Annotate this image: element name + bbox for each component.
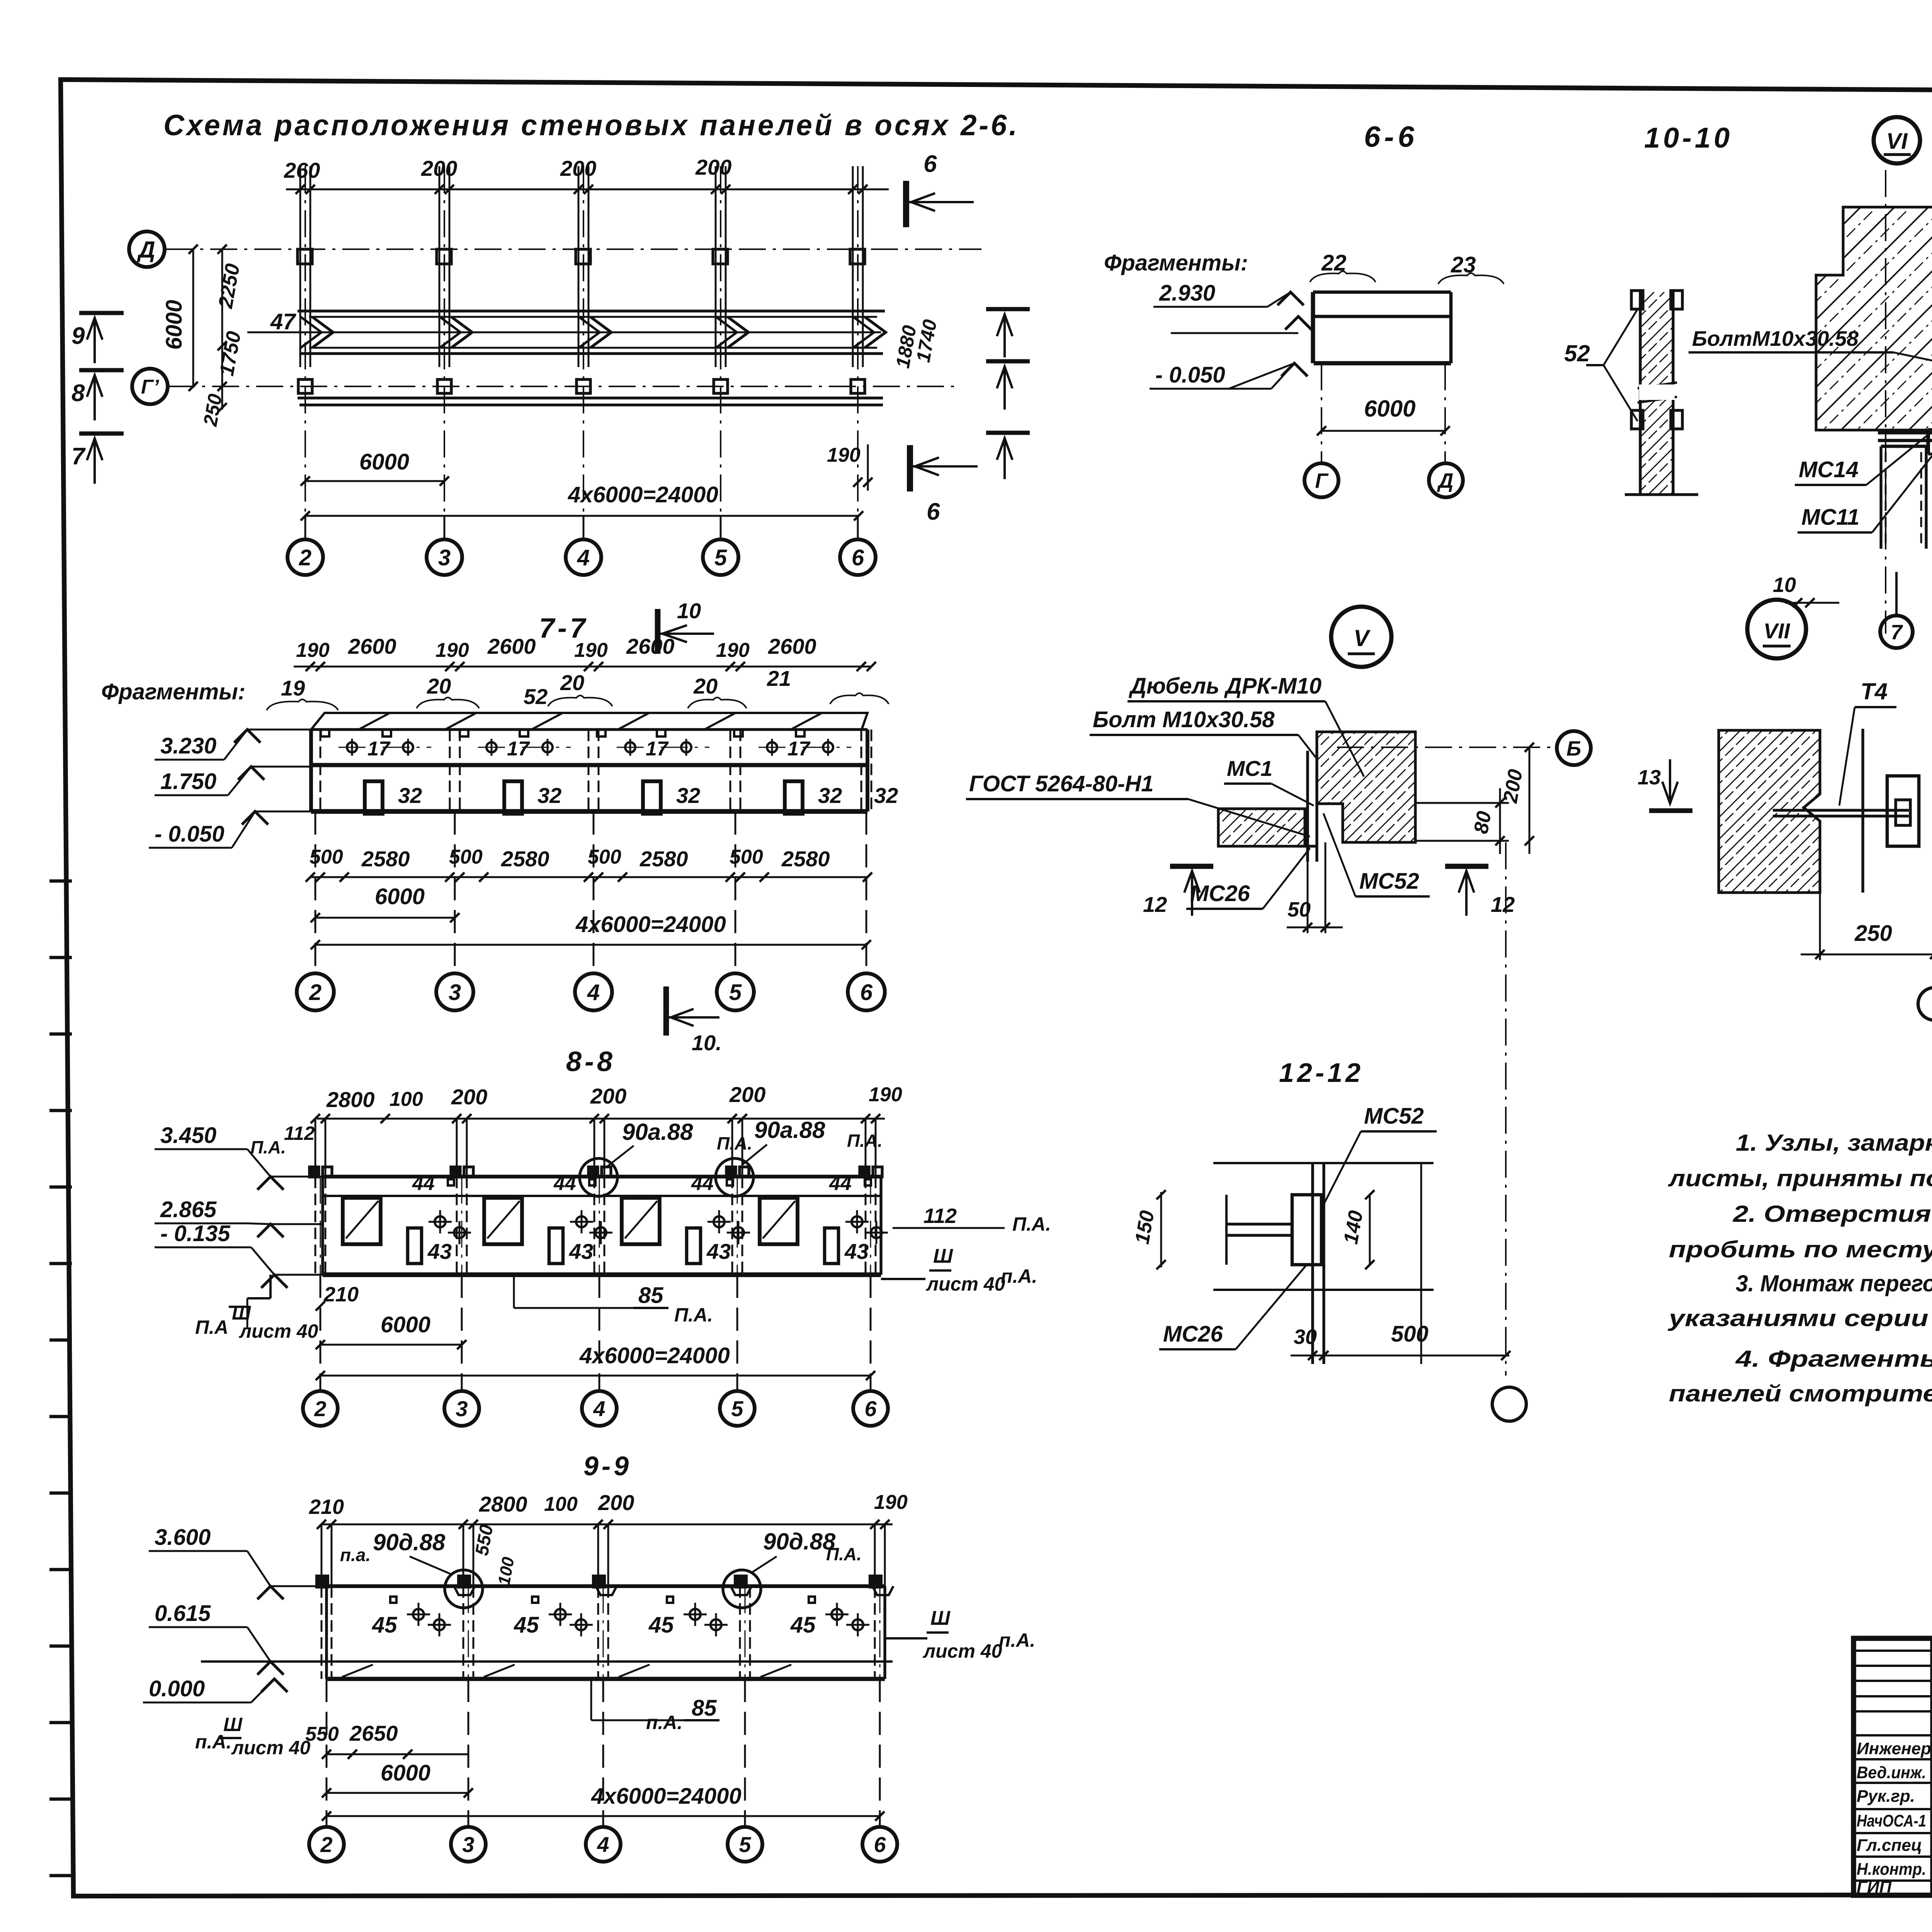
svg-text:200: 200: [451, 1085, 487, 1109]
svg-text:10.: 10.: [692, 1031, 722, 1055]
svg-text:Фрагменты:: Фрагменты:: [1104, 250, 1248, 276]
svg-text:200: 200: [695, 155, 731, 179]
svg-text:20: 20: [427, 674, 451, 698]
svg-text:200: 200: [560, 156, 596, 180]
svg-text:85: 85: [692, 1696, 717, 1721]
svg-text:VII: VII: [1764, 619, 1791, 643]
svg-text:3: 3: [438, 545, 451, 570]
svg-text:52: 52: [1564, 340, 1590, 366]
svg-text:2600: 2600: [768, 634, 816, 658]
svg-text:85: 85: [638, 1283, 663, 1308]
svg-text:лист 40: лист 40: [926, 1273, 1005, 1295]
svg-text:2650: 2650: [349, 1721, 398, 1745]
svg-text:- 0.050: - 0.050: [155, 821, 224, 847]
svg-text:МС11: МС11: [1801, 505, 1859, 530]
svg-text:20: 20: [693, 674, 718, 698]
svg-text:12-12: 12-12: [1279, 1058, 1364, 1088]
svg-text:ГОСТ 5264-80-Н1: ГОСТ 5264-80-Н1: [969, 771, 1153, 796]
svg-text:32: 32: [676, 783, 700, 808]
svg-text:V: V: [1354, 625, 1371, 651]
svg-text:9-9: 9-9: [583, 1451, 632, 1481]
svg-text:указаниями серии 1.030.9-2 вып: указаниями серии 1.030.9-2 вып.0.: [1667, 1305, 1932, 1331]
svg-text:190: 190: [874, 1491, 908, 1514]
svg-text:190: 190: [827, 444, 861, 466]
svg-text:190: 190: [574, 639, 608, 662]
svg-text:45: 45: [372, 1612, 397, 1638]
svg-text:32: 32: [398, 783, 422, 808]
svg-text:32: 32: [818, 783, 842, 808]
svg-text:МС52: МС52: [1359, 869, 1419, 894]
svg-text:112: 112: [284, 1122, 315, 1144]
svg-text:3.600: 3.600: [155, 1525, 211, 1550]
svg-text:6000: 6000: [381, 1312, 430, 1337]
svg-text:0.000: 0.000: [149, 1676, 205, 1701]
svg-text:80: 80: [1470, 810, 1496, 835]
svg-text:Г: Г: [1315, 469, 1329, 492]
svg-text:6: 6: [852, 545, 864, 570]
svg-text:П.А.: П.А.: [674, 1304, 713, 1326]
svg-text:17: 17: [787, 738, 811, 760]
svg-text:лист 40: лист 40: [231, 1737, 311, 1759]
svg-text:2: 2: [299, 545, 311, 570]
svg-text:- 0.135: - 0.135: [160, 1221, 230, 1246]
svg-text:4: 4: [577, 545, 590, 570]
svg-text:5: 5: [714, 545, 727, 570]
svg-text:НачОСА-1: НачОСА-1: [1857, 1811, 1926, 1830]
svg-text:п.А.: п.А.: [1001, 1265, 1037, 1287]
svg-text:6000: 6000: [1364, 396, 1415, 422]
svg-text:20: 20: [560, 670, 584, 695]
svg-text:4: 4: [593, 1396, 605, 1421]
svg-text:2. Отверстия в перегородках С: 2. Отверстия в перегородках С размерами …: [1733, 1201, 1932, 1227]
svg-text:10: 10: [1773, 573, 1796, 597]
svg-text:190: 190: [435, 639, 469, 662]
svg-text:100: 100: [389, 1088, 423, 1111]
svg-text:52: 52: [524, 684, 548, 709]
svg-text:32: 32: [874, 783, 898, 808]
svg-text:90д.88: 90д.88: [373, 1529, 446, 1555]
svg-text:БолтМ10х30.58: БолтМ10х30.58: [1692, 327, 1859, 350]
svg-text:Инженер: Инженер: [1857, 1739, 1931, 1758]
svg-text:12: 12: [1491, 892, 1515, 917]
svg-text:44: 44: [412, 1172, 435, 1195]
svg-text:200: 200: [421, 156, 457, 180]
svg-text:4: 4: [587, 980, 600, 1005]
svg-text:2580: 2580: [501, 847, 549, 871]
svg-text:3: 3: [449, 980, 461, 1005]
svg-text:90а.88: 90а.88: [754, 1117, 825, 1143]
svg-text:7: 7: [71, 443, 86, 470]
svg-text:Рук.гр.: Рук.гр.: [1857, 1787, 1915, 1806]
svg-text:43: 43: [706, 1239, 731, 1264]
svg-text:112: 112: [923, 1204, 957, 1228]
svg-text:45: 45: [514, 1612, 539, 1638]
svg-text:6000: 6000: [359, 449, 409, 474]
svg-text:Д: Д: [136, 237, 155, 263]
svg-text:9: 9: [71, 323, 85, 349]
svg-text:6: 6: [927, 498, 940, 525]
svg-text:21: 21: [767, 666, 791, 690]
svg-text:6: 6: [860, 980, 873, 1005]
svg-text:Ш: Ш: [930, 1607, 951, 1629]
svg-text:500: 500: [1391, 1321, 1429, 1347]
svg-text:2: 2: [309, 980, 321, 1005]
svg-text:6000: 6000: [162, 300, 187, 350]
svg-text:ГИП: ГИП: [1857, 1878, 1892, 1896]
svg-text:4: 4: [597, 1832, 609, 1857]
svg-text:210: 210: [309, 1495, 344, 1519]
svg-text:пробить по месту.: пробить по месту.: [1669, 1236, 1932, 1262]
svg-text:2.930: 2.930: [1159, 281, 1215, 306]
svg-text:6: 6: [874, 1832, 886, 1857]
svg-text:45: 45: [648, 1612, 674, 1638]
svg-text:3.450: 3.450: [160, 1123, 216, 1148]
svg-text:6: 6: [923, 151, 937, 177]
svg-text:П.А.: П.А.: [717, 1133, 752, 1153]
svg-text:2600: 2600: [626, 634, 675, 658]
svg-text:550: 550: [305, 1723, 339, 1745]
svg-text:200: 200: [729, 1082, 765, 1107]
svg-text:17: 17: [507, 738, 530, 760]
svg-text:лист 40: лист 40: [923, 1640, 1002, 1662]
svg-text:200: 200: [590, 1084, 626, 1108]
svg-text:190: 190: [869, 1083, 902, 1106]
svg-text:п.А.: п.А.: [999, 1629, 1035, 1651]
svg-text:17: 17: [367, 738, 391, 760]
svg-text:43: 43: [569, 1239, 593, 1264]
svg-text:Дюбель ДРК-М10: Дюбель ДРК-М10: [1128, 673, 1321, 699]
svg-text:200: 200: [598, 1490, 634, 1515]
svg-text:4х6000=24000: 4х6000=24000: [568, 482, 718, 507]
svg-text:VI: VI: [1886, 129, 1908, 154]
svg-text:2: 2: [314, 1396, 326, 1421]
svg-text:П.А.: П.А.: [1012, 1213, 1051, 1235]
svg-text:6000: 6000: [381, 1760, 430, 1786]
svg-text:1. Узлы, замаркированные на ра: 1. Узлы, замаркированные на разрезах без…: [1736, 1130, 1932, 1156]
svg-text:5: 5: [739, 1832, 751, 1857]
svg-text:17: 17: [646, 738, 669, 760]
svg-text:Ш: Ш: [223, 1714, 243, 1735]
svg-text:43: 43: [427, 1239, 452, 1264]
svg-text:8-8: 8-8: [566, 1046, 616, 1077]
svg-text:П.А.: П.А.: [847, 1131, 883, 1151]
svg-text:Схема расположения стеновых па: Схема расположения стеновых панелей в ос…: [163, 109, 1019, 142]
svg-text:Т4: Т4: [1861, 679, 1888, 704]
svg-text:12: 12: [1143, 892, 1167, 917]
svg-text:3. Монтаж перегородок вести в: 3. Монтаж перегородок вести в соответств…: [1736, 1270, 1932, 1296]
svg-text:4. Фрагменты к схемам располож: 4. Фрагменты к схемам расположения стено…: [1735, 1346, 1932, 1372]
svg-text:П.А.: П.А.: [250, 1137, 286, 1157]
svg-text:7: 7: [1891, 621, 1903, 644]
svg-text:100: 100: [544, 1493, 578, 1515]
svg-text:2600: 2600: [348, 634, 396, 658]
svg-text:2800: 2800: [479, 1492, 527, 1516]
svg-text:190: 190: [296, 639, 330, 662]
svg-text:МС52: МС52: [1364, 1104, 1424, 1129]
svg-text:8: 8: [71, 380, 85, 406]
svg-text:Гʼ: Гʼ: [141, 376, 160, 398]
svg-text:90а.88: 90а.88: [622, 1119, 693, 1145]
svg-text:44: 44: [553, 1172, 576, 1195]
svg-text:Ш: Ш: [933, 1245, 953, 1267]
svg-text:90д.88: 90д.88: [763, 1529, 836, 1554]
svg-text:30: 30: [1294, 1325, 1317, 1349]
svg-text:панелей смотрите на листе 34.: панелей смотрите на листе 34.: [1669, 1381, 1932, 1406]
svg-text:2.865: 2.865: [160, 1197, 217, 1222]
svg-text:250: 250: [1854, 921, 1892, 946]
svg-text:0.615: 0.615: [155, 1601, 211, 1626]
svg-text:П.А.: П.А.: [826, 1544, 862, 1564]
svg-text:- 0.050: - 0.050: [1155, 362, 1225, 388]
svg-text:2: 2: [320, 1832, 332, 1857]
svg-text:45: 45: [790, 1612, 816, 1638]
svg-text:МС14: МС14: [1799, 457, 1859, 482]
svg-text:190: 190: [716, 639, 750, 662]
svg-text:6000: 6000: [375, 884, 425, 909]
svg-text:Вед.инж.: Вед.инж.: [1857, 1763, 1926, 1782]
svg-text:5: 5: [729, 980, 742, 1005]
svg-text:листы, приняты по серии 1.030.: листы, приняты по серии 1.030.9-2 вып.6.: [1668, 1165, 1932, 1191]
svg-text:2800: 2800: [326, 1087, 375, 1112]
svg-text:4х6000=24000: 4х6000=24000: [579, 1343, 730, 1368]
svg-text:Гл.спец: Гл.спец: [1857, 1836, 1922, 1855]
svg-text:44: 44: [691, 1172, 714, 1195]
svg-text:10-10: 10-10: [1644, 122, 1733, 154]
svg-text:260: 260: [284, 158, 320, 182]
svg-text:3: 3: [462, 1832, 474, 1857]
svg-text:6: 6: [864, 1396, 877, 1421]
svg-text:лист 40: лист 40: [239, 1320, 318, 1342]
svg-text:2580: 2580: [781, 847, 830, 871]
svg-text:п.А.: п.А.: [646, 1712, 682, 1733]
svg-text:19: 19: [281, 676, 305, 700]
svg-text:П.А: П.А: [195, 1316, 228, 1338]
svg-text:44: 44: [829, 1172, 852, 1195]
svg-text:Фрагменты:: Фрагменты:: [101, 679, 245, 704]
svg-text:Д: Д: [1437, 469, 1454, 492]
svg-text:13: 13: [1638, 766, 1661, 789]
svg-text:Н.контр.: Н.контр.: [1857, 1860, 1926, 1879]
svg-text:МС1: МС1: [1227, 756, 1272, 781]
svg-text:10: 10: [677, 599, 701, 623]
svg-text:2600: 2600: [487, 634, 536, 658]
svg-text:Болт М10х30.58: Болт М10х30.58: [1093, 707, 1275, 732]
svg-text:4х6000=24000: 4х6000=24000: [575, 912, 726, 937]
svg-text:210: 210: [323, 1283, 359, 1306]
svg-text:5: 5: [731, 1396, 743, 1421]
svg-text:МС26: МС26: [1163, 1321, 1223, 1347]
svg-text:32: 32: [537, 783, 561, 808]
svg-text:п.а.: п.а.: [340, 1545, 371, 1565]
svg-text:3: 3: [456, 1396, 468, 1421]
svg-text:3.230: 3.230: [160, 733, 216, 759]
svg-text:1.750: 1.750: [160, 769, 216, 794]
svg-text:Б: Б: [1566, 737, 1581, 760]
svg-text:2580: 2580: [639, 847, 688, 871]
svg-text:6-6: 6-6: [1364, 121, 1418, 153]
svg-text:МС26: МС26: [1190, 881, 1250, 906]
svg-text:47: 47: [270, 309, 296, 334]
svg-text:2580: 2580: [361, 847, 410, 871]
svg-text:4х6000=24000: 4х6000=24000: [591, 1784, 742, 1809]
